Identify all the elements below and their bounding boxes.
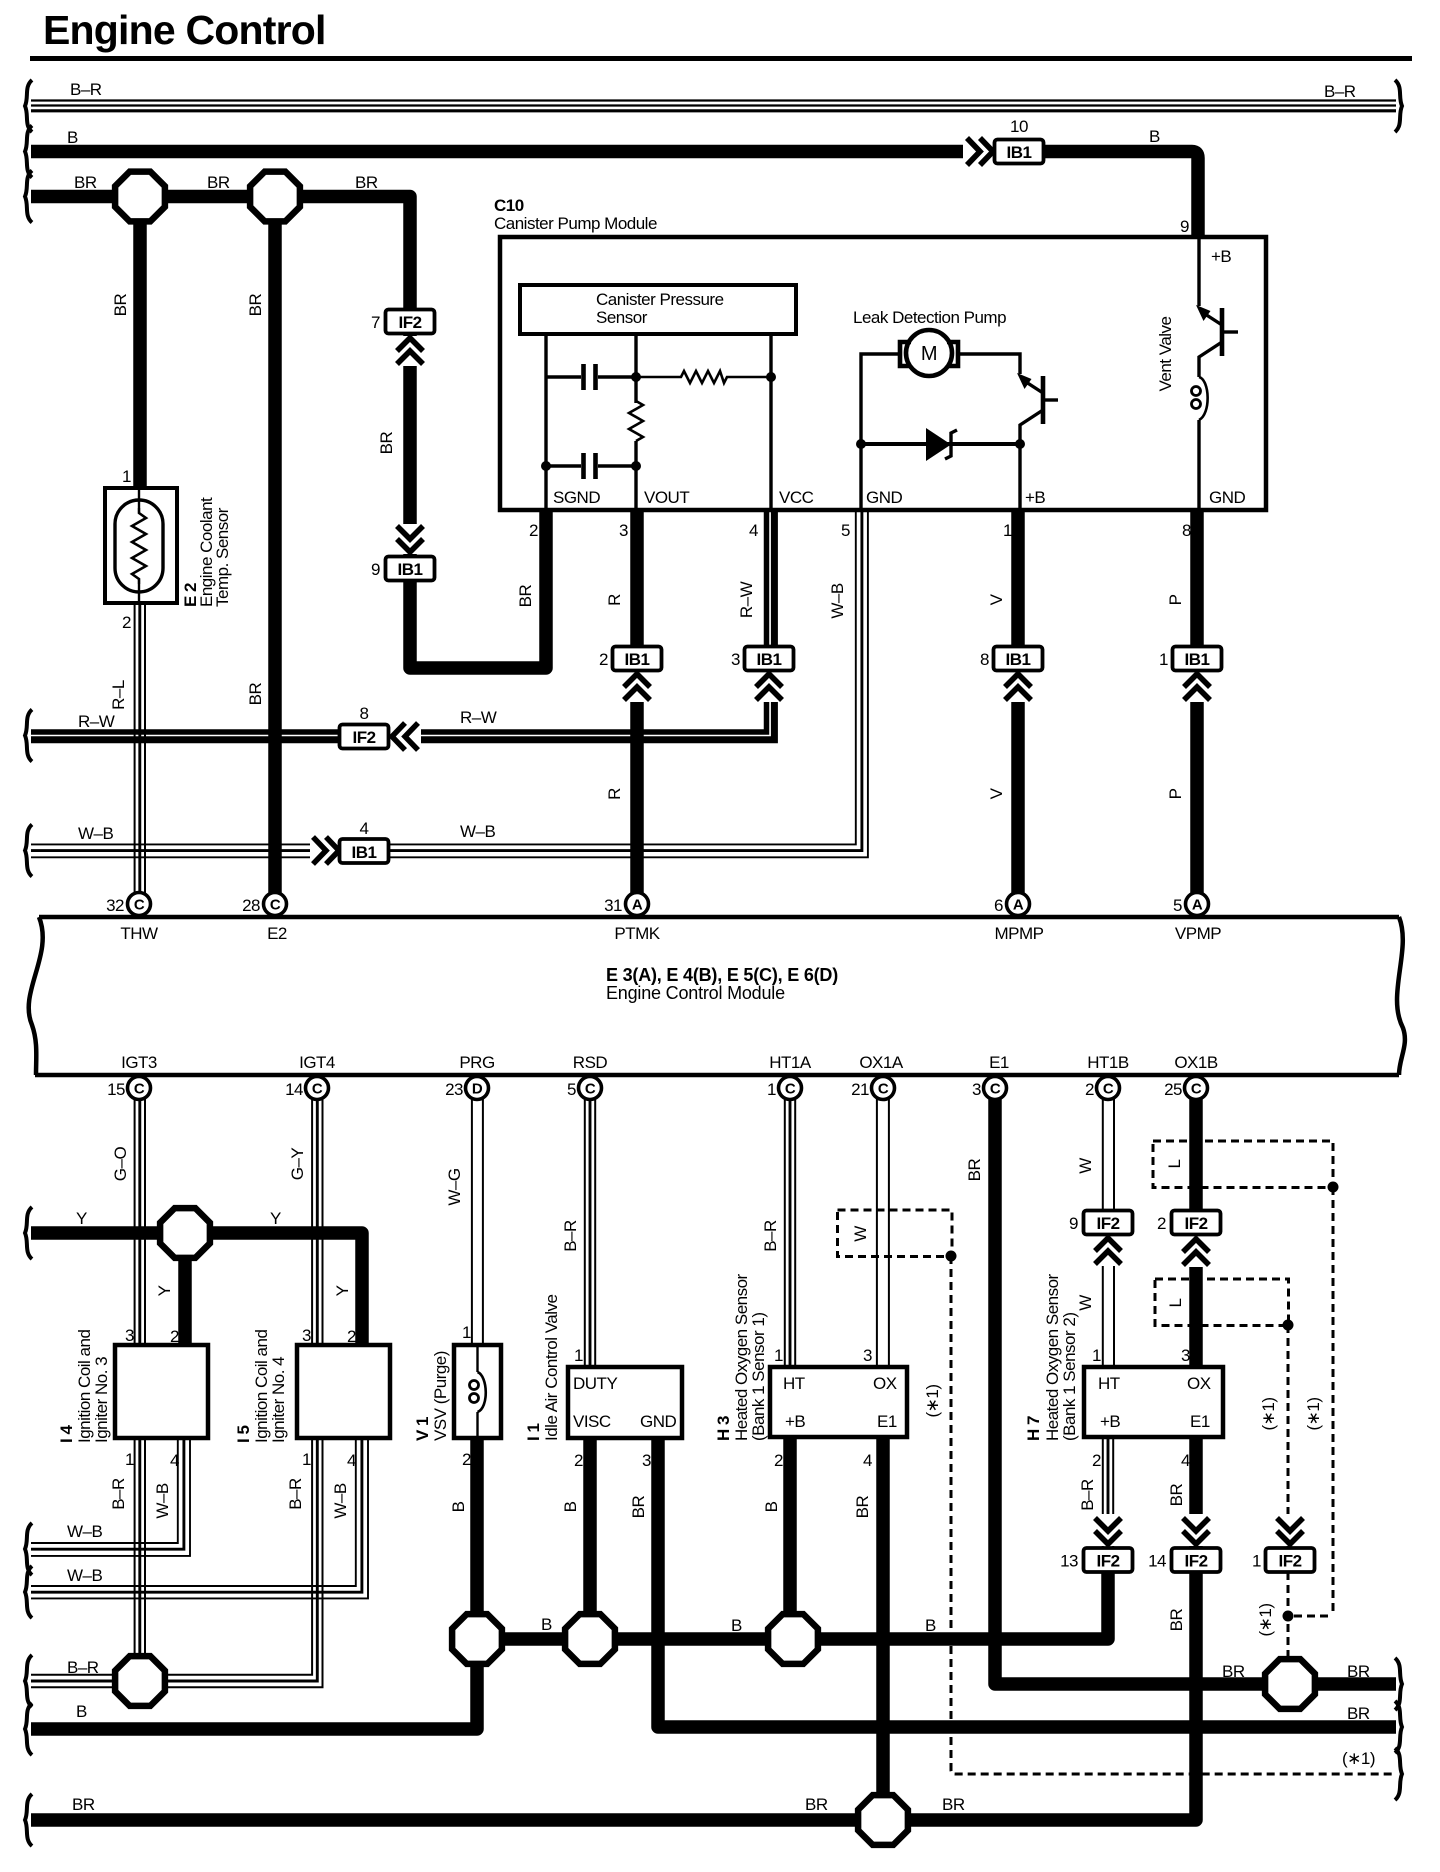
svg-text:3: 3 <box>863 1346 872 1365</box>
wire BR thick OX1B <box>1189 1099 1203 1367</box>
svg-text:V 1: V 1 <box>413 1417 432 1441</box>
wire B top <box>31 145 965 159</box>
svg-text:W: W <box>851 1226 870 1242</box>
svg-text:1: 1 <box>774 1346 783 1365</box>
solenoid coil V1 <box>470 1372 486 1412</box>
svg-text:VISC: VISC <box>573 1412 611 1431</box>
brace B left <box>25 126 32 178</box>
svg-text:OX: OX <box>873 1374 897 1393</box>
wire motor right to transistor <box>958 354 1020 374</box>
svg-text:B: B <box>67 128 78 147</box>
wire BR H3 pin4 down to bottom bus <box>876 1437 890 1820</box>
svg-text:2: 2 <box>574 1451 583 1470</box>
svg-text:R–W: R–W <box>737 581 756 618</box>
svg-text:2: 2 <box>122 613 131 632</box>
wire V MPMP <box>1011 511 1025 893</box>
svg-text:W–B: W–B <box>67 1566 103 1585</box>
svg-text:3: 3 <box>302 1326 311 1345</box>
svg-text:(∗1): (∗1) <box>923 1384 942 1417</box>
svg-text:B–R: B–R <box>286 1478 305 1510</box>
dashed wire from L upper <box>1332 1187 1335 1616</box>
svg-text:BR: BR <box>965 1158 984 1181</box>
coil I4 ignition coil and igniter no3 <box>115 1345 208 1438</box>
svg-text:23: 23 <box>445 1080 463 1099</box>
svg-text:BR: BR <box>246 682 265 705</box>
svg-text:B: B <box>541 1615 552 1634</box>
svg-text:2: 2 <box>529 521 538 540</box>
connector 8 IB1 <box>1003 672 1033 702</box>
arrows down into 14 IF2 <box>1180 1514 1212 1546</box>
svg-text:Y: Y <box>270 1209 281 1228</box>
svg-text:GND: GND <box>1209 488 1246 507</box>
svg-text:IB1: IB1 <box>1007 143 1032 162</box>
svg-text:6: 6 <box>994 896 1003 915</box>
wire sensor SGND leg <box>544 334 547 509</box>
brace W-B left <box>25 825 32 877</box>
wire B-R triple HT1A <box>785 1099 795 1367</box>
svg-text:BR: BR <box>111 293 130 316</box>
svg-text:MPMP: MPMP <box>995 924 1044 943</box>
connector 10 IB1 <box>995 140 1044 164</box>
svg-text:IF2: IF2 <box>352 728 375 747</box>
junction octagon BR E1 <box>1265 1659 1315 1709</box>
svg-text:W–G: W–G <box>445 1168 464 1205</box>
svg-text:3: 3 <box>125 1326 134 1345</box>
valve I1 idle air control valve <box>568 1367 682 1438</box>
svg-text:C: C <box>270 897 281 914</box>
connector 14 IF2 <box>1172 1548 1221 1572</box>
svg-text:14: 14 <box>1148 1552 1166 1571</box>
node 6 A MPMP <box>1007 893 1030 916</box>
wire G-Y triple IGT4 <box>312 1099 322 1345</box>
wire BR drop to E2 <box>133 197 147 489</box>
wire Y drop to I4 <box>178 1233 192 1345</box>
brace R-W left <box>25 710 32 762</box>
canister pressure sensor box <box>520 285 796 334</box>
svg-text:4: 4 <box>347 1451 356 1470</box>
node 5 A VPMP <box>1186 893 1209 916</box>
junction octagon BR 1 <box>115 172 165 222</box>
svg-text:VCC: VCC <box>779 488 814 507</box>
svg-text:B–R: B–R <box>1078 1479 1097 1511</box>
coil I5 ignition coil and igniter no4 <box>297 1345 390 1438</box>
svg-text:3: 3 <box>1181 1346 1190 1365</box>
brace B-R left lower <box>25 1655 32 1707</box>
svg-text:1: 1 <box>462 1323 471 1342</box>
svg-text:IF2: IF2 <box>1184 1214 1207 1233</box>
valve V1 VSV purge <box>454 1345 501 1438</box>
connector 9 IB1 <box>386 557 435 581</box>
svg-text:VSV (Purge): VSV (Purge) <box>431 1351 450 1441</box>
svg-text:IF2: IF2 <box>1096 1552 1119 1571</box>
resistor vertical <box>629 401 643 441</box>
node dot VOUT top <box>631 372 641 382</box>
svg-text:W–B: W–B <box>331 1483 350 1519</box>
svg-text:5: 5 <box>567 1080 576 1099</box>
wire Y bus <box>31 1233 362 1345</box>
svg-text:P: P <box>1166 594 1185 605</box>
svg-text:IGT3: IGT3 <box>121 1053 157 1072</box>
svg-text:B: B <box>925 1616 936 1635</box>
wire +B leg <box>1197 239 1200 306</box>
transistor leak pump <box>1017 373 1058 509</box>
ECM top connector circles <box>106 893 1221 944</box>
wire motor left to GND leg <box>861 354 900 509</box>
svg-text:7: 7 <box>371 313 380 332</box>
brace Y left <box>25 1207 32 1259</box>
junction octagon B H3 <box>768 1614 818 1664</box>
wire BR E1 bus right of octagon <box>1313 1677 1396 1691</box>
svg-text:OX: OX <box>1187 1374 1211 1393</box>
svg-text:THW: THW <box>120 924 158 943</box>
svg-text:W–B: W–B <box>78 824 114 843</box>
capacitor C-bottom <box>546 453 636 479</box>
node dot VCC <box>766 372 776 382</box>
svg-text:PRG: PRG <box>459 1053 494 1072</box>
svg-text:BR: BR <box>355 173 378 192</box>
node dot VOUT bottom <box>631 461 641 471</box>
wire BR E1 to junction <box>995 1099 1267 1684</box>
svg-text:B: B <box>731 1616 742 1635</box>
svg-text:(Bank 1 Sensor 2): (Bank 1 Sensor 2) <box>1060 1312 1079 1441</box>
svg-text:B: B <box>762 1501 781 1512</box>
node dot +B-diode <box>1015 439 1025 449</box>
wire sensor VCC leg <box>769 334 772 509</box>
node 28 C E2 <box>264 893 287 916</box>
motor M <box>906 330 952 376</box>
svg-text:21: 21 <box>851 1080 869 1099</box>
svg-text:PTMK: PTMK <box>614 924 660 943</box>
svg-text:IF2: IF2 <box>1184 1552 1207 1571</box>
svg-text:Engine Control: Engine Control <box>43 7 326 53</box>
wire R-W row to 8IF2 and VCC <box>31 510 774 740</box>
svg-text:C10: C10 <box>494 196 524 215</box>
svg-text:3: 3 <box>972 1080 981 1099</box>
wire BR mid bus I1 GND to right <box>658 1438 1396 1727</box>
svg-text:W–B: W–B <box>67 1522 103 1541</box>
wire BR bottom bus <box>31 1813 883 1827</box>
svg-text:IB1: IB1 <box>352 843 377 862</box>
dashed shield box L lower <box>1155 1279 1289 1326</box>
node dot dashed join <box>1283 1611 1294 1622</box>
wire W double OX1A <box>877 1099 889 1367</box>
svg-text:E1: E1 <box>877 1412 897 1431</box>
svg-text:(∗1): (∗1) <box>1304 1397 1323 1430</box>
svg-text:1: 1 <box>122 467 131 486</box>
svg-text:Vent Valve: Vent Valve <box>1156 316 1175 391</box>
wire B drop I1 pin2 <box>583 1438 597 1639</box>
svg-text:OX1A: OX1A <box>859 1053 904 1072</box>
sensor H7 heated oxygen sensor bank1 sensor2 <box>1084 1367 1223 1437</box>
svg-text:8: 8 <box>980 650 989 669</box>
svg-text:V: V <box>987 593 1006 605</box>
wire B-R triple bus left <box>31 1675 117 1687</box>
svg-text:HT1A: HT1A <box>769 1053 812 1072</box>
svg-text:Y: Y <box>155 1285 174 1296</box>
arrows left into IF2 8 <box>389 723 421 750</box>
svg-text:BR: BR <box>74 173 97 192</box>
diode (zener) <box>861 428 1020 461</box>
svg-text:VPMP: VPMP <box>1175 924 1221 943</box>
connector 8 IF2 <box>340 725 389 749</box>
svg-text:2: 2 <box>1092 1451 1101 1470</box>
resistor horizontal <box>636 371 771 383</box>
connector 1 IF2 <box>1266 1548 1315 1572</box>
svg-text:E1: E1 <box>1190 1412 1210 1431</box>
svg-text:4: 4 <box>1181 1451 1190 1470</box>
svg-text:4: 4 <box>360 819 369 838</box>
svg-text:BR: BR <box>1347 1704 1370 1723</box>
svg-text:I 1: I 1 <box>524 1424 543 1441</box>
svg-text:E1: E1 <box>989 1053 1009 1072</box>
svg-text:4: 4 <box>749 521 758 540</box>
svg-text:1: 1 <box>1003 521 1012 540</box>
arrows right into IB1 4 <box>310 837 341 865</box>
svg-text:M: M <box>921 343 937 365</box>
dashed wire OX1A down and right <box>951 1256 1396 1774</box>
svg-text:B: B <box>561 1501 580 1512</box>
connector 13 IF2 <box>1084 1548 1133 1572</box>
svg-text:IB1: IB1 <box>1006 650 1031 669</box>
svg-text:C: C <box>878 1081 889 1098</box>
wire B-R triple I4 pin1 to junction <box>135 1438 145 1660</box>
svg-text:VOUT: VOUT <box>644 488 689 507</box>
svg-text:(∗1): (∗1) <box>1256 1603 1275 1636</box>
svg-text:1: 1 <box>1092 1346 1101 1365</box>
svg-text:BR: BR <box>246 293 265 316</box>
svg-text:Igniter No. 3: Igniter No. 3 <box>92 1357 111 1443</box>
svg-text:B: B <box>449 1501 468 1512</box>
wire W-B triple I5 pin4 <box>31 1438 368 1598</box>
svg-text:13: 13 <box>1060 1552 1078 1571</box>
sensor E2 engine coolant temp sensor <box>105 488 177 603</box>
arrows down into 13 IF2 <box>1093 1514 1123 1546</box>
svg-text:C: C <box>990 1081 1001 1098</box>
svg-text:Y: Y <box>333 1285 352 1296</box>
node dot GND-diode <box>856 439 866 449</box>
wire B bus: octagon to octagon segments <box>477 1572 1108 1639</box>
svg-text:E2: E2 <box>267 924 287 943</box>
svg-text:L: L <box>1166 1298 1185 1307</box>
svg-text:BR: BR <box>629 1495 648 1518</box>
wire BR drop to ECM E2 pin <box>268 197 282 894</box>
svg-text:G–O: G–O <box>111 1147 130 1182</box>
svg-text:2: 2 <box>1085 1080 1094 1099</box>
connector 2 IB1 <box>622 672 652 702</box>
wire G-O triple IGT3 <box>135 1099 145 1345</box>
module C10 Canister Pump Module <box>500 237 1266 510</box>
svg-text:C: C <box>134 1081 145 1098</box>
wire W-B triple I4 pin4 <box>31 1438 190 1556</box>
brace BR left <box>25 171 32 223</box>
dashed wire from L lower <box>1287 1325 1290 1660</box>
svg-text:P: P <box>1166 788 1185 799</box>
svg-text:1: 1 <box>302 1450 311 1469</box>
node dot dashed OX1A <box>946 1251 957 1262</box>
svg-text:IGT4: IGT4 <box>299 1053 335 1072</box>
svg-text:+B: +B <box>1100 1412 1120 1431</box>
svg-text:D: D <box>472 1081 483 1098</box>
svg-text:A: A <box>1192 897 1203 914</box>
junction octagon B-R <box>115 1656 165 1706</box>
svg-text:G–Y: G–Y <box>288 1148 307 1181</box>
svg-text:1: 1 <box>1252 1552 1261 1571</box>
svg-text:B–R: B–R <box>67 1658 99 1677</box>
wire B drop H3 pin2 <box>783 1438 797 1639</box>
connector 9 IF2 <box>1093 1236 1123 1266</box>
svg-text:B–R: B–R <box>70 80 102 99</box>
svg-text:5: 5 <box>841 521 850 540</box>
svg-text:V: V <box>987 787 1006 799</box>
wire BR top <box>31 197 546 669</box>
node dot SGND <box>541 461 551 471</box>
svg-text:R: R <box>605 788 624 800</box>
node 32 C THW <box>128 893 151 916</box>
connector 7 IF2 <box>386 310 435 334</box>
arrows up into IF2 7 <box>395 336 425 366</box>
arrows down into IB1 9 <box>395 524 425 554</box>
svg-text:GND: GND <box>866 488 903 507</box>
wire R PTMK <box>630 511 644 893</box>
junction octagon BR 2 <box>250 172 300 222</box>
svg-text:I 5: I 5 <box>234 1426 253 1443</box>
svg-text:R–W: R–W <box>460 708 497 727</box>
svg-text:BR: BR <box>72 1795 95 1814</box>
dashed shield box W OX1A <box>838 1210 953 1257</box>
svg-text:IB1: IB1 <box>398 560 423 579</box>
svg-text:B: B <box>1149 127 1160 146</box>
svg-text:W–B: W–B <box>460 822 496 841</box>
arrows into IB1 10 <box>963 136 994 167</box>
svg-text:1: 1 <box>767 1080 776 1099</box>
svg-text:BR: BR <box>1167 1608 1186 1631</box>
svg-text:IB1: IB1 <box>625 650 650 669</box>
svg-text:BR: BR <box>1167 1483 1186 1506</box>
wire B bus lower: left to VSV <box>31 1438 477 1729</box>
wire B-R triple junction to I5 pin1 <box>163 1438 323 1687</box>
sensor H3 heated oxygen sensor bank1 sensor1 <box>770 1367 907 1437</box>
svg-text:C: C <box>1103 1081 1114 1098</box>
svg-text:Leak Detection Pump: Leak Detection Pump <box>853 308 1006 327</box>
svg-text:A: A <box>632 897 643 914</box>
wire R-L triple E2 to THW <box>135 603 145 893</box>
svg-text:1: 1 <box>574 1346 583 1365</box>
svg-text:3: 3 <box>619 521 628 540</box>
svg-text:+B: +B <box>1025 488 1045 507</box>
wire W double HT1B <box>1103 1099 1114 1367</box>
junction octagon B I1 <box>565 1614 615 1664</box>
svg-text:W: W <box>1076 1295 1095 1311</box>
svg-text:Canister Pump Module: Canister Pump Module <box>494 214 657 233</box>
svg-text:B–R: B–R <box>109 1478 128 1510</box>
svg-text:SGND: SGND <box>553 488 600 507</box>
svg-text:3: 3 <box>642 1451 651 1470</box>
svg-text:5: 5 <box>1173 896 1182 915</box>
svg-text:Sensor: Sensor <box>596 308 648 327</box>
svg-text:C: C <box>585 1081 596 1098</box>
svg-text:15: 15 <box>107 1080 125 1099</box>
svg-text:A: A <box>1013 897 1024 914</box>
svg-text:(∗1): (∗1) <box>1342 1749 1375 1768</box>
svg-text:C: C <box>785 1081 796 1098</box>
wire P VPMP <box>1190 511 1204 893</box>
svg-text:C: C <box>312 1081 323 1098</box>
transistor vent valve <box>1196 305 1238 377</box>
svg-text:2: 2 <box>347 1327 356 1346</box>
junction octagon Y <box>160 1208 210 1258</box>
svg-text:Temp. Sensor: Temp. Sensor <box>213 507 232 607</box>
svg-text:10: 10 <box>1010 117 1028 136</box>
dashed shield box L upper <box>1153 1141 1333 1188</box>
svg-text:C: C <box>1191 1081 1202 1098</box>
svg-text:IB1: IB1 <box>1185 650 1210 669</box>
junction octagon BR bottom <box>858 1795 908 1845</box>
node 31 A PTMK <box>626 893 649 916</box>
svg-text:H 3: H 3 <box>714 1416 733 1441</box>
wire B-R top bus <box>31 101 1396 111</box>
svg-text:Y: Y <box>76 1209 87 1228</box>
svg-text:31: 31 <box>604 896 622 915</box>
svg-text:1: 1 <box>125 1450 134 1469</box>
svg-text:4: 4 <box>863 1451 872 1470</box>
svg-text:R: R <box>605 594 624 606</box>
node dot dashed upper <box>1328 1182 1339 1193</box>
wire GND leg vent valve <box>1197 420 1200 509</box>
connector 2 IF2 <box>1179 1236 1213 1267</box>
svg-text:2: 2 <box>1157 1214 1166 1233</box>
svg-text:BR: BR <box>942 1795 965 1814</box>
svg-text:Igniter No. 4: Igniter No. 4 <box>269 1357 288 1443</box>
brace B-R right <box>1395 80 1402 132</box>
wire B-R triple H7 +B to 13 IF2 <box>1103 1437 1113 1549</box>
svg-text:9: 9 <box>371 560 380 579</box>
junction octagon B VSV <box>452 1614 502 1664</box>
connector 1 IB1 <box>1182 672 1212 702</box>
svg-text:14: 14 <box>285 1080 303 1099</box>
dashed wire join horizontal <box>1294 1615 1333 1618</box>
svg-text:2: 2 <box>170 1327 179 1346</box>
svg-text:BR: BR <box>377 431 396 454</box>
svg-text:GND: GND <box>640 1412 677 1431</box>
svg-text:H 7: H 7 <box>1024 1416 1043 1441</box>
svg-text:B–R: B–R <box>761 1220 780 1252</box>
svg-text:Canister Pressure: Canister Pressure <box>596 290 724 309</box>
svg-text:IF2: IF2 <box>398 313 421 332</box>
svg-text:8: 8 <box>1182 521 1191 540</box>
svg-text:R–W: R–W <box>78 712 115 731</box>
svg-text:E 3(A), E 4(B), E 5(C), E 6(D): E 3(A), E 4(B), E 5(C), E 6(D) <box>606 965 838 985</box>
svg-text:32: 32 <box>106 896 124 915</box>
svg-text:(Bank 1 Sensor 1): (Bank 1 Sensor 1) <box>749 1312 768 1441</box>
wire W-G double PRG <box>472 1099 483 1345</box>
svg-text:BR: BR <box>207 173 230 192</box>
ECM band (Engine Control Module) <box>29 917 1405 1075</box>
svg-text:(∗1): (∗1) <box>1259 1397 1278 1430</box>
svg-text:BR: BR <box>805 1795 828 1814</box>
svg-text:25: 25 <box>1164 1080 1182 1099</box>
svg-text:L: L <box>1165 1159 1184 1168</box>
svg-text:9: 9 <box>1069 1214 1078 1233</box>
connector 3 IB1 on R-W <box>754 672 784 702</box>
svg-text:8: 8 <box>360 704 369 723</box>
svg-text:HT1B: HT1B <box>1087 1053 1129 1072</box>
svg-text:2: 2 <box>774 1451 783 1470</box>
svg-text:9: 9 <box>1180 217 1189 236</box>
svg-text:+B: +B <box>1211 247 1231 266</box>
svg-text:2: 2 <box>599 650 608 669</box>
svg-text:IF2: IF2 <box>1096 1214 1119 1233</box>
wire B-R triple RSD <box>585 1099 595 1367</box>
